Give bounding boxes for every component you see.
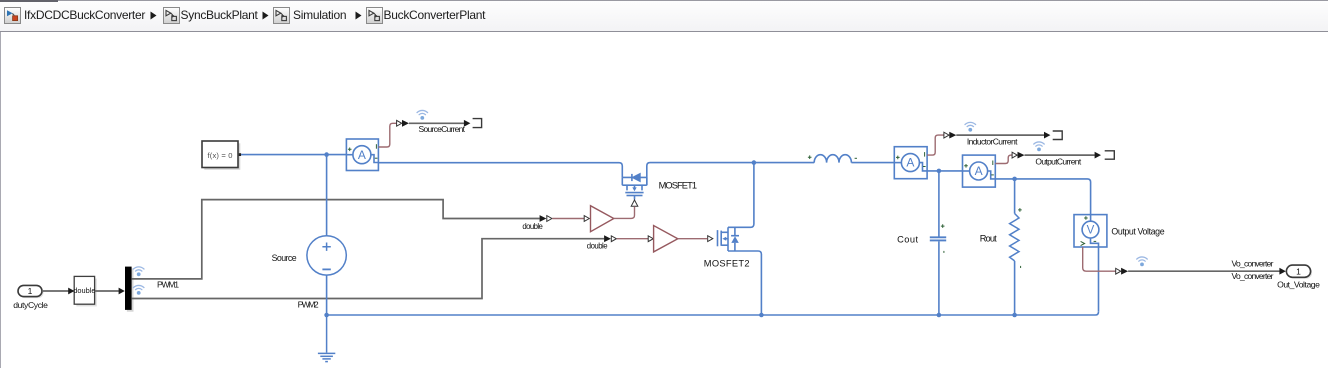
svg-text:1: 1 (1296, 266, 1301, 276)
node Cout top junction (937, 169, 942, 174)
logging badge OutputCurrent (1034, 142, 1045, 151)
node Rout top junction (1012, 177, 1017, 182)
PS wire to buffer2 (617, 238, 648, 240)
MOSFET1 gate PS port (631, 200, 638, 206)
svg-text:f(x) = 0: f(x) = 0 (208, 151, 233, 160)
V1 port marks (1081, 216, 1097, 245)
breadcrumb bar (0, 0, 1328, 32)
Rout + mark (1018, 208, 1022, 212)
svg-text:Output Voltage: Output Voltage (1111, 227, 1164, 237)
MOSFET1 (622, 163, 814, 200)
node Rout bottom junction (1012, 313, 1017, 318)
svg-text:MOSFET2: MOSFET2 (704, 258, 750, 268)
resistor Rout (1010, 214, 1019, 261)
logging badge PWM1 (133, 267, 144, 276)
voltmeter V1 (1074, 215, 1107, 247)
wire conversion to demux (95, 288, 125, 295)
input port dutyCycle (18, 285, 44, 298)
inductor L (814, 155, 894, 163)
wire voltmeter - to bottom rail (1098, 247, 1100, 312)
buffer1 input PS port (584, 216, 589, 222)
MOSFET2 (718, 227, 762, 315)
A2 port marks (896, 152, 926, 166)
output port Out_Voltage (1286, 265, 1312, 279)
svg-text:InductorCurrent: InductorCurrent (967, 136, 1018, 146)
data type conversion block (double) (73, 276, 97, 306)
PS wire A2 I output (927, 135, 944, 155)
svg-text:Cout: Cout (897, 235, 918, 245)
svg-text:PWM2: PWM2 (298, 300, 319, 310)
MOSFET2 gate PS port (708, 236, 713, 242)
wire A1 to MOSFET1 drain (378, 163, 622, 178)
PS-Simulink converter SourceCurrent (397, 120, 409, 127)
wire junction to Cout (938, 171, 940, 237)
wire Cout to bottom rail (938, 241, 940, 315)
PS wire to buffer1 (552, 218, 584, 220)
svg-text:double: double (587, 242, 608, 251)
inductor + mark (808, 155, 812, 159)
logging badge PWM2 (133, 285, 144, 294)
ground (318, 315, 335, 362)
wire A2 to A3 (927, 170, 962, 172)
Cout - mark (943, 251, 945, 253)
capacitor Cout (930, 237, 946, 240)
svg-text:dutyCycle: dutyCycle (13, 300, 48, 310)
wire A3 to voltmeter (995, 179, 1090, 215)
Rout - mark (1020, 266, 1022, 268)
A1 port marks (348, 144, 378, 158)
node MOSFET2 source junction (759, 313, 764, 318)
demux bar (125, 267, 134, 312)
node Cout bottom junction (937, 313, 942, 318)
PS wire V1 output (1083, 247, 1116, 271)
f(x)=0 solver block (202, 141, 241, 170)
wire junction to Rout (1014, 179, 1016, 214)
PS wire A3 I output (995, 155, 1012, 163)
logging badge InductorCurrent (965, 122, 976, 131)
node bottom-left junction (324, 313, 329, 318)
svg-text:Out_Voltage: Out_Voltage (1277, 280, 1320, 290)
buffer U1 triangle (591, 206, 614, 232)
A3 port marks (964, 161, 994, 175)
current sensor A2 (894, 147, 927, 179)
svg-text:OutputCurrent: OutputCurrent (1035, 156, 1081, 166)
signal conversion arrow PWM1 (540, 215, 552, 222)
svg-text:MOSFET1: MOSFET1 (659, 180, 697, 190)
svg-text:Vo_converter: Vo_converter (1232, 258, 1274, 268)
inductor - mark (855, 157, 857, 159)
buffer U2 triangle (654, 226, 678, 252)
wire Source - to bottom rail (326, 275, 328, 315)
wire PWM2 (132, 239, 604, 299)
logging badge SourceCurrent (417, 110, 428, 119)
PS wire A1 I output (378, 123, 396, 147)
signal conversion arrow PWM2 (604, 235, 616, 242)
svg-text:Rout: Rout (980, 234, 997, 244)
svg-text:Source: Source (272, 253, 297, 263)
svg-text:double: double (73, 286, 95, 295)
svg-text:A: A (906, 156, 914, 170)
wire Rout to bottom rail (1014, 261, 1016, 315)
terminator InductorCurrent (1053, 131, 1063, 140)
wire top rail to MOSFET2 drain (728, 163, 754, 228)
wire junction to Source + (326, 155, 328, 236)
terminator SourceCurrent (473, 119, 482, 128)
PS-Simulink converter InductorCurrent (944, 132, 956, 139)
svg-text:A: A (358, 148, 366, 162)
wire OutputCurrent (1025, 152, 1102, 159)
wire SourceCurrent (409, 120, 470, 127)
node switch top junction (752, 160, 757, 165)
PS-Simulink converter OutputCurrent (1012, 152, 1024, 159)
PS wire buffer1 to MOSFET1 gate (614, 206, 635, 218)
wire InductorCurrent (956, 132, 1050, 139)
bottom rail wire (327, 312, 1099, 315)
svg-text:SourceCurrent: SourceCurrent (419, 124, 466, 134)
svg-text:A: A (975, 164, 983, 178)
PS-Simulink converter Vo (1116, 268, 1128, 275)
svg-text:PWM1: PWM1 (157, 280, 179, 290)
buffer2 input PS port (648, 236, 653, 242)
wire PWM1 (132, 200, 540, 279)
current sensor A3 (963, 155, 996, 187)
svg-text:V: V (1087, 225, 1095, 237)
voltage source Source (307, 236, 346, 275)
logging badge Vo_converter (1137, 257, 1148, 266)
current sensor A1 (346, 139, 378, 171)
wire Vo_converter (1128, 268, 1286, 275)
Cout + mark (941, 224, 945, 228)
svg-text:1: 1 (28, 286, 33, 296)
svg-text:Vo_converter: Vo_converter (1232, 271, 1274, 281)
terminator OutputCurrent (1105, 151, 1115, 159)
node source top junction (324, 152, 329, 157)
PS wire buffer2 to MOSFET2 gate (678, 238, 708, 240)
wire dutyCycle to conversion (42, 288, 74, 295)
wire fx to ammeter A1 (241, 154, 346, 156)
svg-text:double: double (522, 222, 542, 231)
